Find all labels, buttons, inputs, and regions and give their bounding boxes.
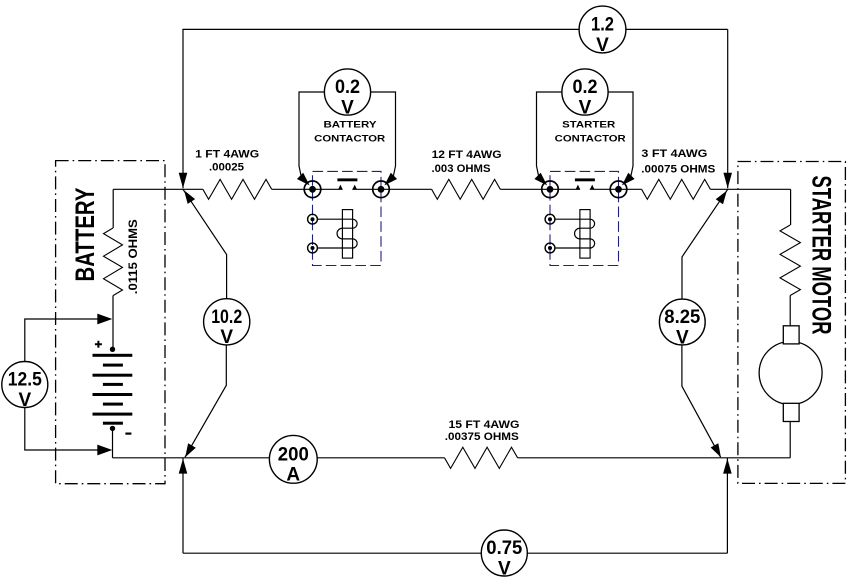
- ammeter 200 A: [269, 435, 317, 485]
- battery cell plates: [93, 354, 133, 425]
- battery enclosure dash-dot box: [56, 161, 165, 484]
- svg-text:12.5: 12.5: [8, 370, 42, 391]
- battery contactor terminal right: [373, 181, 390, 198]
- battery contactor fixed contact left: [338, 185, 342, 190]
- arrowhead 12.5V bottom lead (right): [97, 445, 112, 456]
- wire resistor to battery plus: [112, 296, 114, 350]
- starter contactor fixed contact left: [576, 185, 580, 190]
- svg-text:BATTERY: BATTERY: [324, 120, 378, 131]
- wire top loop left vertical: [182, 29, 184, 188]
- arrowhead into right bottom junction (up): [723, 459, 732, 474]
- battery contactor coil winding: [318, 219, 358, 248]
- battery contactor coil core: [342, 210, 352, 259]
- svg-text:BATTERY: BATTERY: [70, 187, 100, 281]
- wire right junction diagonal to 8.25V: [682, 189, 728, 299]
- arrowhead into left top junction (down): [179, 173, 188, 189]
- resistor R4 15FT 4AWG zigzag: [445, 447, 518, 468]
- svg-text:.00375 OHMS: .00375 OHMS: [445, 431, 519, 443]
- wire top loop horizontal left segment: [182, 28, 579, 30]
- wire battery contactor right contact: [352, 188, 381, 190]
- svg-text:STARTER: STARTER: [562, 120, 615, 131]
- arrowhead into right top junction (down): [723, 173, 732, 189]
- starter motor enclosure dash-dot box: [738, 162, 846, 484]
- svg-text:3 FT 4AWG: 3 FT 4AWG: [641, 148, 707, 160]
- motor armature circle: [759, 342, 822, 405]
- battery contactor coil terminal upper: [308, 214, 318, 224]
- wire ammeter to resistor R4: [317, 457, 444, 459]
- svg-text:1.2: 1.2: [591, 15, 614, 36]
- wire 8.25V to bottom junction diagonal: [682, 345, 721, 457]
- resistor R2 12FT 4AWG zigzag: [432, 179, 501, 199]
- resistor starter motor internal zigzag: [780, 225, 800, 296]
- svg-text:10.2: 10.2: [211, 307, 242, 328]
- voltmeter 0.2 V (starter contactor): [562, 69, 608, 118]
- arrowhead 0.2V right lead (starter): [622, 173, 635, 186]
- wire 0.2V right lead (battery): [371, 92, 396, 177]
- starter contactor coil terminal lower: [545, 243, 555, 253]
- svg-text:V: V: [341, 97, 354, 118]
- node battery plus junction dot: [110, 347, 115, 352]
- resistor R3 3FT 4AWG zigzag: [642, 179, 711, 199]
- voltmeter 8.25 V: [659, 299, 705, 348]
- starter contactor terminal left: [542, 181, 559, 198]
- battery contactor dashed box: [313, 171, 382, 265]
- svg-text:0.75: 0.75: [486, 538, 522, 559]
- motor brush bottom: [783, 403, 799, 421]
- starter contactor coil terminal upper: [545, 214, 555, 224]
- wire starter contactor to resistor R3: [619, 188, 642, 190]
- arrowhead 0.2V left lead (battery): [297, 173, 310, 186]
- wire left junction diagonal to 10.2V: [183, 189, 227, 299]
- wire R2 to starter contactor: [500, 188, 550, 190]
- wire R1 to battery contactor: [272, 188, 313, 190]
- svg-text:.00025: .00025: [209, 162, 244, 174]
- wire 12.5V meter bottom lead: [25, 407, 100, 450]
- wire 12.5V meter top lead: [25, 319, 100, 362]
- svg-text:CONTACTOR: CONTACTOR: [555, 133, 626, 144]
- wire resistor to motor: [789, 296, 791, 326]
- starter contactor terminal right: [610, 181, 627, 198]
- svg-text:.0115 OHMS: .0115 OHMS: [128, 219, 140, 294]
- wire battery to resistor R1: [113, 188, 203, 190]
- wire 0.2V right lead (starter): [608, 92, 633, 177]
- svg-text:A: A: [286, 465, 300, 486]
- wire 0.75V loop left vertical: [182, 458, 184, 553]
- arrowhead into left bottom junction (up): [179, 459, 188, 474]
- svg-text:V: V: [579, 97, 592, 118]
- starter contactor coil core: [580, 210, 590, 259]
- wire 0.2V left lead (battery): [299, 92, 324, 177]
- wire 0.2V left lead (starter): [537, 92, 562, 177]
- voltmeter 1.2 V: [579, 6, 626, 56]
- wire 0.75V loop right vertical: [726, 458, 728, 553]
- voltmeter 0.75 V: [481, 530, 527, 579]
- arrowhead 0.2V right lead (battery): [384, 173, 397, 186]
- starter contactor coil winding: [555, 219, 595, 248]
- wire battery contactor to resistor R2: [381, 188, 432, 190]
- battery contactor fixed contact right: [353, 185, 357, 190]
- arrowhead into right top junction (diagonal up-right): [716, 191, 727, 205]
- svg-text:STARTER MOTOR: STARTER MOTOR: [807, 176, 837, 335]
- wire starter contactor right contact: [590, 188, 619, 190]
- voltmeter 12.5 V: [2, 362, 48, 411]
- wire starter motor top corner: [790, 189, 792, 225]
- arrowhead into left bottom junction (diagonal down-left): [185, 443, 196, 457]
- resistor R1 1FT 4AWG zigzag: [203, 179, 272, 199]
- wire R4 to starter motor: [518, 457, 791, 459]
- starter contactor dashed box: [550, 171, 619, 265]
- wire 10.2V to bottom junction diagonal: [185, 345, 226, 457]
- battery contactor terminal left: [304, 181, 321, 198]
- wire bottom battery to ammeter: [113, 457, 270, 459]
- label + sign: [95, 341, 102, 348]
- node battery minus junction dot: [110, 426, 115, 431]
- starter contactor switch bar: [575, 178, 595, 181]
- wire top loop horizontal right segment: [626, 28, 728, 30]
- svg-text:CONTACTOR: CONTACTOR: [314, 133, 385, 144]
- svg-text:V: V: [498, 558, 511, 577]
- starter contactor fixed contact right: [590, 185, 594, 190]
- svg-text:1 FT 4AWG: 1 FT 4AWG: [195, 149, 259, 161]
- voltmeter 0.2 V (battery contactor): [324, 69, 370, 118]
- svg-text:0.2: 0.2: [573, 77, 598, 98]
- wire battery contactor left contact: [313, 188, 343, 190]
- resistor battery internal zigzag: [104, 228, 123, 296]
- svg-text:.003 OHMS: .003 OHMS: [432, 163, 491, 175]
- svg-text:8.25: 8.25: [664, 307, 700, 328]
- arrowhead into right bottom junction (diagonal down-right): [711, 443, 721, 457]
- wire R3 to starter motor: [710, 188, 790, 190]
- svg-text:.00075 OHMS: .00075 OHMS: [641, 163, 715, 175]
- svg-text:200: 200: [278, 445, 309, 466]
- arrowhead 0.2V left lead (starter): [534, 173, 547, 186]
- arrowhead 12.5V top lead (right): [97, 314, 112, 325]
- wire battery minus down: [112, 428, 114, 457]
- battery contactor switch bar: [337, 178, 357, 181]
- voltmeter 10.2 V: [204, 299, 250, 348]
- svg-text:12 FT 4AWG: 12 FT 4AWG: [432, 149, 502, 161]
- motor brush top: [783, 326, 799, 344]
- label - sign: [125, 433, 131, 435]
- svg-text:0.2: 0.2: [335, 77, 360, 98]
- svg-text:15 FT 4AWG: 15 FT 4AWG: [449, 419, 520, 431]
- wire starter contactor left contact: [550, 188, 580, 190]
- wire top loop right vertical: [727, 29, 729, 188]
- wire 0.75V loop horizontal right: [527, 552, 727, 554]
- wire motor to bottom: [789, 422, 791, 458]
- battery contactor coil terminal lower: [308, 243, 318, 253]
- svg-text:V: V: [596, 35, 609, 56]
- wire battery top corner: [112, 189, 114, 228]
- wire 0.75V loop horizontal left: [183, 552, 481, 554]
- arrowhead into left top junction (diagonal up-left): [184, 190, 195, 204]
